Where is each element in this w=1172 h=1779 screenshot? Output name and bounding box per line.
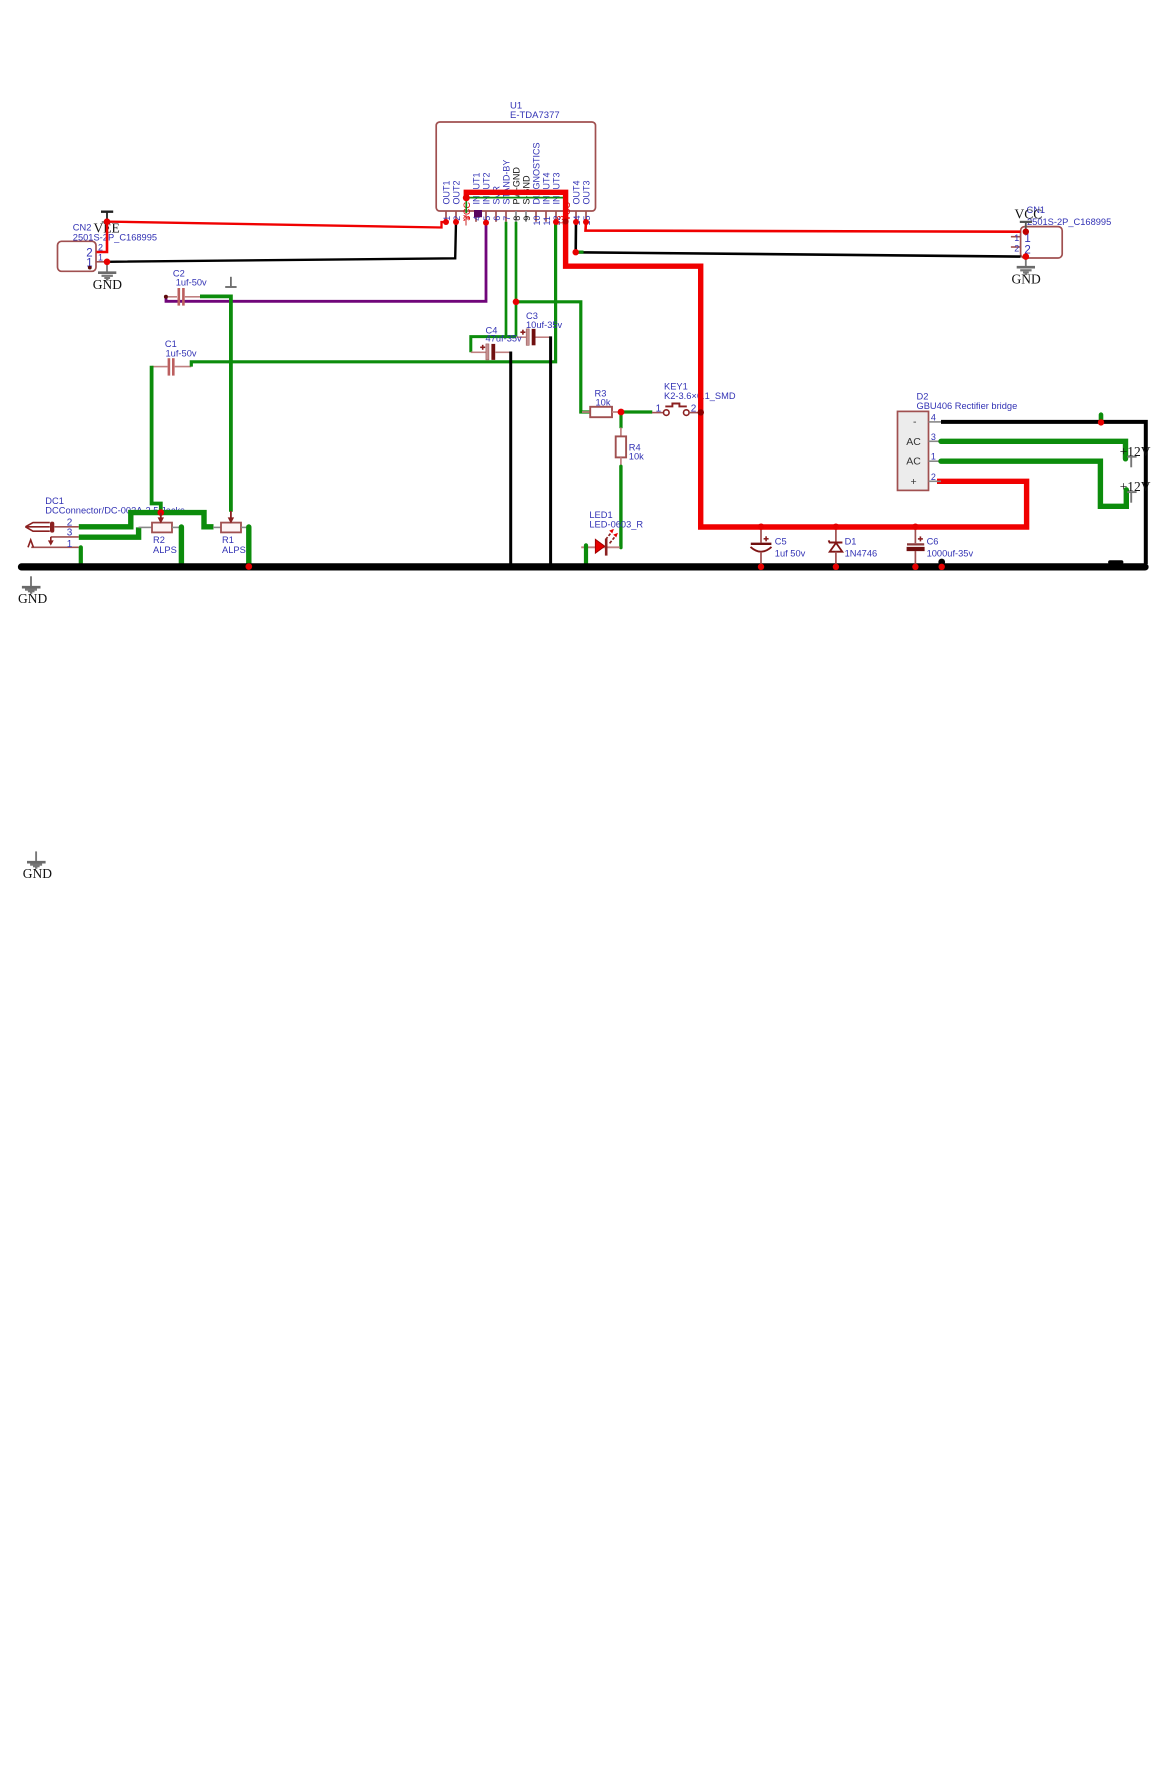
svg-text:LED-0603_R: LED-0603_R xyxy=(589,520,643,530)
junction dot C6 bottom xyxy=(912,564,918,570)
resistor R3 left lead xyxy=(582,411,590,413)
svg-text:7: 7 xyxy=(502,216,512,221)
potentiometer R2 body xyxy=(152,523,172,533)
junction dot VEE xyxy=(104,218,111,225)
ground symbol under CN1 xyxy=(1017,257,1035,275)
CN1 pin 2 lead xyxy=(1011,246,1021,248)
diode D1 cathode bar xyxy=(829,540,843,542)
capacitor C1 plates xyxy=(168,358,171,375)
resistor R4 body xyxy=(616,436,626,457)
junction dot CN2 pin1 xyxy=(104,259,111,266)
svg-text:11: 11 xyxy=(542,216,552,225)
junction dot R1 to bus xyxy=(246,563,253,570)
capacitor C3 plus sign xyxy=(520,330,525,335)
net flag VEE gray bar xyxy=(102,221,113,223)
switch KEY1 lead 2 xyxy=(689,412,699,414)
wire green R3 to R4 xyxy=(619,412,622,428)
capacitor C6 top lead xyxy=(914,528,916,543)
junction dot C5 top xyxy=(758,524,764,530)
capacitor C5 curved plate xyxy=(751,547,772,552)
wire green R1 right to ground bus xyxy=(246,527,251,565)
DC1 pin 1 lead with spring contact xyxy=(31,546,79,548)
DC1 pin 2 lead xyxy=(54,526,79,528)
wire thick red VCC net from U1 pin13 to D2 xyxy=(466,192,1026,527)
svg-text:+: + xyxy=(911,476,917,488)
junction dot U1 pin14 corner xyxy=(573,249,579,255)
wire green U1 pin7 down xyxy=(505,222,508,337)
resistor R3 body xyxy=(590,407,612,417)
D2 pin 2 lead xyxy=(929,480,942,482)
junction dot U1 pin14 xyxy=(573,219,579,225)
diode D1 bottom lead xyxy=(835,552,837,566)
svg-text:1: 1 xyxy=(656,403,662,414)
svg-text:D1: D1 xyxy=(845,537,857,547)
U1 pin stubs 1-15 xyxy=(446,211,586,226)
wire red U1 pin1 to VEE flag xyxy=(108,222,446,228)
wire green C1 down to R2 wiper xyxy=(152,366,161,513)
svg-text:10k: 10k xyxy=(629,452,644,462)
svg-text:3: 3 xyxy=(462,216,472,221)
junction dot U1 pin15 xyxy=(583,219,589,225)
op-amp U1 E-TDA7377 body xyxy=(436,122,595,211)
svg-text:VCC: VCC xyxy=(1015,207,1043,222)
rectifier bridge D2 body xyxy=(898,411,929,490)
wire green C1 to U1 pin12 xyxy=(191,222,556,367)
potentiometer R2 wiper arrow xyxy=(160,513,162,520)
switch KEY1 lead 1 xyxy=(652,412,664,414)
capacitor C3 left lead xyxy=(516,336,526,338)
capacitor C4 dark plate xyxy=(491,344,495,360)
capacitor C5 top plate xyxy=(751,543,772,545)
potentiometer R1 wiper arrow xyxy=(230,511,232,519)
svg-text:GND: GND xyxy=(93,277,122,292)
svg-text:OUT1: OUT1 xyxy=(441,180,451,204)
junction dot U1 pin2 xyxy=(453,219,459,225)
DC jack DC1 barrel xyxy=(25,523,49,532)
ground symbol under CN2 xyxy=(98,262,116,280)
net flag +12V upper xyxy=(1127,457,1136,468)
wire VCC thin green inside U1 xyxy=(466,198,565,213)
potentiometer R1 right lead xyxy=(241,526,249,528)
wire black D2 pin4 to ground bus xyxy=(941,422,1146,564)
wire green stub on minus wire xyxy=(1099,415,1104,421)
svg-text:1uf 50v: 1uf 50v xyxy=(775,549,806,559)
wire red VEE to CN2 pin 2 xyxy=(97,222,108,252)
svg-text:GND: GND xyxy=(23,866,52,881)
switch KEY1 contact circle 1 xyxy=(664,410,670,416)
svg-text:OUT2: OUT2 xyxy=(451,180,461,204)
svg-text:INPUT3: INPUT3 xyxy=(551,172,561,204)
svg-text:R1: R1 xyxy=(222,535,234,545)
svg-text:KEY1: KEY1 xyxy=(664,381,688,391)
net flag VEE stem xyxy=(106,211,108,222)
LED LED1 triangle xyxy=(595,539,604,553)
net flag VEE bar xyxy=(101,210,113,212)
wire black C3 to ground bus xyxy=(549,336,552,564)
wire green C4 bus xyxy=(471,337,516,353)
capacitor C2 left pin dot xyxy=(164,295,168,299)
svg-text:9: 9 xyxy=(522,216,532,221)
svg-text:ALPS: ALPS xyxy=(153,545,177,555)
svg-text:GND: GND xyxy=(1012,272,1041,287)
svg-text:CN2: CN2 xyxy=(73,223,92,233)
junction dot R2 wiper xyxy=(158,509,165,516)
wire black C4 to ground bus xyxy=(509,352,512,565)
DC jack DC1 tip bar xyxy=(50,522,54,533)
wire green R4 to LED1 xyxy=(619,466,622,547)
svg-text:OUT3: OUT3 xyxy=(581,180,591,204)
svg-text:1: 1 xyxy=(931,452,936,462)
svg-text:1uf-50v: 1uf-50v xyxy=(176,278,207,288)
diode D1 triangle xyxy=(830,543,843,552)
purple stub square at U1 pin5 xyxy=(474,210,482,217)
svg-text:10k: 10k xyxy=(596,397,611,407)
svg-text:1: 1 xyxy=(98,252,103,262)
svg-text:R2: R2 xyxy=(153,535,165,545)
wire green pin8 branch to R3 xyxy=(516,302,590,412)
svg-text:10uf-35v: 10uf-35v xyxy=(526,320,563,330)
svg-text:INPUT2: INPUT2 xyxy=(481,172,491,204)
junction dot U1 pin13 xyxy=(563,219,569,225)
switch KEY1 contact circle 2 xyxy=(684,410,690,416)
svg-text:+12V: +12V xyxy=(1120,444,1151,459)
svg-text:INPUT1: INPUT1 xyxy=(471,172,481,204)
svg-text:AC: AC xyxy=(906,456,921,468)
svg-text:3: 3 xyxy=(67,528,73,539)
junction dot U1 pin1 xyxy=(443,219,449,225)
capacitor C3 pale plate xyxy=(526,329,529,345)
junction dot CN1 pin1 xyxy=(1023,229,1029,235)
svg-text:DIAGNOSTICS: DIAGNOSTICS xyxy=(531,142,541,204)
DC1 pin 3 lead with switch arrow xyxy=(51,536,79,538)
capacitor C2 plates xyxy=(178,288,181,306)
wire green DC1 pin1 to ground bus xyxy=(79,547,83,564)
black stub dot on ground bus xyxy=(938,559,945,566)
connector CN1 body xyxy=(1021,227,1063,258)
capacitor C1 right lead xyxy=(175,366,192,368)
svg-text:1: 1 xyxy=(1014,233,1019,243)
wire green D2 pin3 to +12V xyxy=(941,441,1126,459)
svg-text:1: 1 xyxy=(67,539,73,550)
junction dot KEY1 pin2 xyxy=(698,409,704,415)
CN2 pin1 marker dot xyxy=(88,266,92,270)
junction dot D1 bottom xyxy=(833,564,839,570)
ground bus jog bump xyxy=(1110,560,1122,564)
net port symbol above C2 net xyxy=(225,277,236,287)
potentiometer R2 right lead xyxy=(172,526,181,528)
wire black CN2 pin1 to U1 pin2 xyxy=(107,222,456,262)
capacitor C6 top plate xyxy=(907,543,924,545)
wire green DC1 pin3 to R2 left xyxy=(79,527,139,537)
junction dot U1 pin5 xyxy=(483,220,489,226)
junction dot near C6 on bus xyxy=(939,564,945,570)
junction dot pin8 branch xyxy=(513,299,520,306)
capacitor C6 bottom plate xyxy=(907,547,925,551)
capacitor C3 right lead xyxy=(536,336,551,338)
svg-text:C6: C6 xyxy=(927,537,939,547)
capacitor C4 pale plate xyxy=(486,344,489,360)
svg-text:4: 4 xyxy=(931,412,936,422)
svg-text:1N4746: 1N4746 xyxy=(845,549,878,559)
capacitor C2 right lead xyxy=(185,296,201,298)
svg-text:PW-GND: PW-GND xyxy=(511,167,521,205)
junction dot C6 top xyxy=(912,524,918,530)
capacitor C1 left lead xyxy=(152,366,168,368)
svg-text:6: 6 xyxy=(492,216,502,221)
svg-text:+12V: +12V xyxy=(1120,479,1151,494)
svg-text:GBU406 Rectifier bridge: GBU406 Rectifier bridge xyxy=(917,401,1018,411)
wire black U1 pin14 to CN1 pin2 xyxy=(576,222,1021,257)
wire red U1 pin15 to CN1 pin1 xyxy=(586,222,1021,232)
LED LED1 left lead xyxy=(581,546,620,548)
svg-text:-: - xyxy=(913,416,917,428)
resistor R4 top lead xyxy=(620,428,622,437)
svg-text:DC1: DC1 xyxy=(45,496,64,506)
potentiometer R1 body xyxy=(221,523,241,533)
svg-text:1000uf-35v: 1000uf-35v xyxy=(927,549,974,559)
capacitor C4 right lead xyxy=(495,351,511,353)
capacitor C5 plus sign xyxy=(764,536,769,541)
resistor R3 right lead xyxy=(612,411,619,413)
svg-text:INPUT4: INPUT4 xyxy=(541,172,551,204)
ground symbol floating lower xyxy=(27,851,46,868)
wire green DC1 pin2 to R1 left xyxy=(79,513,214,527)
D2 pin 3 lead xyxy=(929,440,942,442)
LED LED1 emission arrows xyxy=(606,534,615,544)
svg-text:2: 2 xyxy=(691,403,697,414)
net flag +12V lower xyxy=(1127,492,1136,503)
capacitor C6 plus sign xyxy=(918,536,923,541)
net flag VCC stem xyxy=(1025,222,1027,232)
svg-text:OUT4: OUT4 xyxy=(571,180,581,204)
CN2 pin 1 lead xyxy=(96,261,107,263)
junction dot C5 bottom xyxy=(758,564,764,570)
svg-text:2: 2 xyxy=(931,472,936,482)
switch KEY1 button bar xyxy=(665,404,687,407)
capacitor C4 plus sign xyxy=(480,345,485,350)
capacitor C2 left lead xyxy=(166,296,177,298)
svg-text:47uf-35v: 47uf-35v xyxy=(486,334,523,344)
wire green stub at pin14 corner xyxy=(578,251,584,254)
ground symbol at bus left end xyxy=(22,576,41,593)
capacitor C6 bottom lead xyxy=(914,551,916,566)
svg-text:10: 10 xyxy=(532,215,542,225)
CN1 pin 1 lead xyxy=(1011,236,1021,238)
svg-text:2: 2 xyxy=(1014,244,1019,254)
connector CN2 body xyxy=(58,241,97,271)
wire green U1 pin8 down xyxy=(515,222,518,337)
svg-text:AC: AC xyxy=(906,436,921,448)
svg-text:E-TDA7377: E-TDA7377 xyxy=(510,110,560,121)
junction dot on minus wire xyxy=(1098,419,1104,425)
wire green LED1 anode to ground bus xyxy=(584,545,588,564)
wire green R3 to KEY1 xyxy=(621,410,652,413)
capacitor C3 dark plate xyxy=(532,329,536,345)
net flag VCC bar xyxy=(1020,221,1032,223)
svg-text:C5: C5 xyxy=(775,537,787,547)
D2 pin 1 lead xyxy=(929,460,942,462)
wire green R2 right to ground bus xyxy=(179,527,184,564)
wire green C2 to R1 wiper xyxy=(200,296,231,511)
capacitor C4 left lead xyxy=(471,351,486,353)
junction dot VCC inside U1 xyxy=(463,194,470,201)
wire purple U1 pin5 to C2 xyxy=(166,223,486,302)
potentiometer R2 left lead xyxy=(139,526,152,528)
D2 pin 4 lead xyxy=(929,421,942,423)
potentiometer R1 left lead xyxy=(213,526,221,528)
resistor R4 bottom lead xyxy=(620,457,622,466)
svg-text:GND: GND xyxy=(18,591,47,606)
wire green D2 pin1 to +12V xyxy=(941,461,1126,506)
diode D1 top lead xyxy=(835,528,837,542)
junction dot D1 top xyxy=(833,524,839,530)
capacitor C5 bottom lead xyxy=(760,552,762,566)
CN2 pin 2 lead xyxy=(96,251,107,253)
capacitor C5 top lead xyxy=(760,528,762,543)
svg-text:8: 8 xyxy=(512,216,522,221)
junction dot CN1 pin2 xyxy=(1023,253,1030,260)
svg-text:3: 3 xyxy=(931,432,936,442)
ground bus wire xyxy=(22,563,1146,570)
LED LED1 cathode bar xyxy=(605,539,608,556)
junction dot R3 right xyxy=(618,409,625,416)
svg-text:1uf-50v: 1uf-50v xyxy=(166,348,197,358)
junction dot U1 pin12 xyxy=(553,219,559,225)
svg-text:ALPS: ALPS xyxy=(222,545,246,555)
